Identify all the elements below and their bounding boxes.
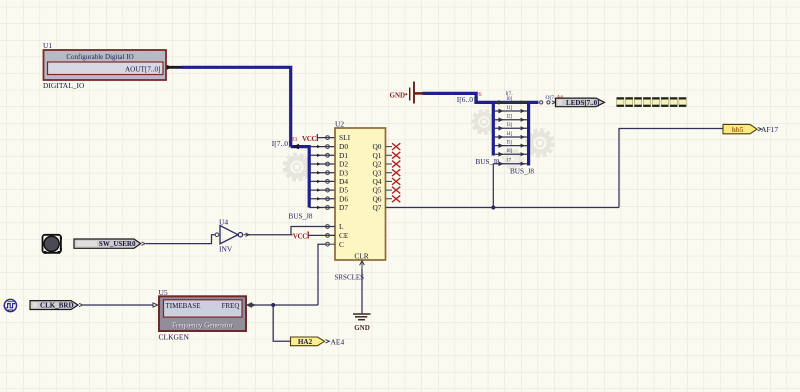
svg-text:U2: U2 [335, 120, 344, 129]
ground GND (U2 clear) [353, 314, 371, 320]
wire Q7 net to hb5 [619, 129, 723, 208]
svg-text:CLR: CLR [354, 251, 368, 260]
svg-text:D0: D0 [339, 142, 348, 151]
svg-text:D2: D2 [339, 160, 348, 169]
no-connect X Q3 [392, 169, 400, 176]
svg-text:TIMEBASE: TIMEBASE [166, 302, 201, 310]
svg-text:I2]: I2] [507, 115, 513, 120]
svg-text:AE4: AE4 [331, 337, 345, 346]
ripper arrows left column [317, 145, 321, 209]
LED block 2 [626, 97, 633, 106]
wire CLK_BRD to U5 [83, 304, 153, 306]
svg-text:BUS_J8: BUS_J8 [510, 168, 534, 176]
svg-text:D6: D6 [339, 194, 348, 203]
sheet entry AOUT[7..0] [125, 65, 183, 74]
wire junction up to C pin [318, 244, 325, 305]
svg-text:hb5: hb5 [732, 126, 744, 134]
svg-text:Q5: Q5 [372, 186, 381, 195]
junction FREQ [271, 303, 275, 307]
sheet symbol U1 [44, 50, 167, 80]
no-connect X Q4 [392, 178, 400, 185]
U2 Q pin stubs [386, 147, 392, 199]
svg-text:D7: D7 [339, 203, 348, 212]
ripper 2 labels [506, 92, 514, 154]
power port GND (top) [390, 82, 423, 104]
pin end circles U2 left [326, 136, 330, 210]
svg-text:I6]: I6] [507, 149, 513, 154]
LED block 4 [643, 97, 650, 106]
svg-text:VCC: VCC [302, 135, 316, 143]
ripper wire D0 [309, 146, 335, 148]
U5 output pin [246, 303, 255, 307]
svg-text:SRSCLES: SRSCLES [335, 274, 365, 282]
port HA2 [291, 337, 330, 346]
power port VCC (SLI) [302, 134, 317, 143]
bus GND to ripper 2 [423, 93, 539, 102]
ripper wire D1 [309, 154, 335, 156]
svg-text:D3: D3 [339, 168, 348, 177]
watermark gear 4 [505, 151, 522, 168]
port LEDS[7..0] [556, 98, 605, 107]
svg-text:I7: I7 [507, 159, 512, 164]
bus AOUT from U1 [182, 67, 291, 146]
svg-text:U5: U5 [159, 288, 168, 297]
inverter U4 [215, 226, 249, 244]
svg-text:CLK_BRD: CLK_BRD [40, 302, 73, 310]
svg-text:DIGITAL_IO: DIGITAL_IO [43, 81, 85, 90]
LED block 6 [661, 97, 668, 106]
svg-text:SLI: SLI [339, 133, 351, 142]
power port VCC (CE) [293, 231, 308, 240]
svg-text:I5]: I5] [507, 141, 513, 146]
LED block 7 [670, 97, 677, 106]
no-connect X Q0 [392, 143, 400, 150]
ripper wire D5 [309, 189, 335, 191]
svg-text:BUS_J8: BUS_J8 [476, 158, 500, 166]
svg-text:I[6..0]: I[6..0] [457, 95, 476, 104]
push button icon [43, 235, 63, 254]
svg-text:D5: D5 [339, 186, 348, 195]
svg-text:Q7: Q7 [372, 203, 381, 212]
ripper wire D7 [309, 207, 335, 209]
clock source icon [4, 299, 16, 311]
wire Q7 net horizontal [386, 207, 619, 209]
junction Q7 [491, 206, 495, 210]
ripper wire D4 [309, 180, 335, 182]
svg-text:Q1: Q1 [372, 151, 381, 160]
svg-text:Q3: Q3 [372, 168, 381, 177]
svg-text:GND: GND [354, 324, 370, 332]
svg-text:HA2: HA2 [298, 338, 313, 346]
wire I7 down to Q7 net [492, 164, 494, 208]
wire junction down to HA2 [273, 305, 290, 341]
svg-text:GND: GND [390, 91, 406, 99]
svg-text:CE: CE [339, 231, 349, 240]
LED block 8 [679, 97, 686, 106]
svg-text:AF17: AF17 [761, 125, 778, 134]
wire vertical to L [291, 227, 335, 235]
wire U4 out to VCC port [249, 234, 293, 236]
wire SW_USER0 to U4 [146, 235, 215, 244]
svg-text:FREQ: FREQ [222, 302, 240, 310]
svg-text:BUS_J8: BUS_J8 [289, 213, 313, 221]
svg-text:Q0: Q0 [372, 142, 381, 151]
watermark gear 2 [474, 112, 494, 132]
wire VCC to SLI [317, 137, 335, 139]
U2 left pin names [339, 133, 351, 249]
ripper wire D6 [309, 198, 335, 200]
svg-text:Q2: Q2 [372, 160, 381, 169]
bus entry arrow [293, 144, 300, 150]
U5 input pin [153, 303, 158, 307]
svg-text:INV: INV [219, 244, 233, 253]
svg-text:LEDS[7..0]: LEDS[7..0] [566, 99, 599, 107]
wire FREQ to junction [255, 304, 319, 306]
svg-text:J6: J6 [476, 91, 483, 98]
no-connect X Q5 [392, 187, 400, 194]
ripper 2 rows [493, 102, 527, 163]
watermark gear 3 [529, 132, 552, 155]
wire VCC to CE [308, 234, 335, 236]
watermark gear 1 [286, 156, 308, 178]
svg-text:D1: D1 [339, 151, 348, 160]
svg-text:VCC: VCC [293, 233, 307, 241]
LED block 1 [617, 97, 624, 106]
svg-text:SW_USER0: SW_USER0 [99, 240, 136, 248]
LED block 3 [634, 97, 641, 106]
bus vertical right (ripper 2) [527, 102, 530, 165]
wire SRSCLES [361, 269, 363, 314]
svg-text:J3: J3 [292, 136, 298, 143]
no-connect X Q1 [392, 152, 400, 159]
svg-text:C: C [339, 240, 344, 249]
ripper wire D3 [309, 172, 335, 174]
shift register U2 [335, 128, 386, 260]
bus to port LEDS glyphs [540, 101, 556, 104]
U2 pins L CE C [325, 225, 335, 247]
svg-text:Q6: Q6 [372, 194, 381, 203]
svg-text:Frequency Generator: Frequency Generator [172, 321, 233, 329]
svg-text:CLKGEN: CLKGEN [159, 333, 190, 342]
sheet symbol U5 [159, 296, 246, 331]
svg-text:D4: D4 [339, 177, 348, 186]
svg-text:I[7..0]: I[7..0] [272, 139, 291, 148]
svg-text:I0]: I0] [507, 97, 513, 102]
no-connect X Q2 [392, 161, 400, 168]
svg-text:I3]: I3] [507, 123, 513, 128]
svg-text:O[7.: O[7. [546, 95, 557, 101]
U2 right pin names [372, 142, 381, 212]
ripper wire D2 [309, 163, 335, 165]
port CLK_BRD [30, 301, 83, 310]
port hb5 [723, 124, 762, 133]
svg-text:L: L [339, 222, 344, 231]
svg-text:Q4: Q4 [372, 177, 381, 186]
bus vertical left (ripper 2) [492, 102, 495, 155]
svg-text:U1: U1 [43, 41, 52, 50]
bus corner into ripper BUS_J8 [291, 147, 310, 208]
no-connect X Q6 [392, 195, 400, 202]
svg-text:U4: U4 [219, 217, 228, 226]
svg-text:I4]: I4] [507, 132, 513, 137]
U2 CLR pin stub [360, 260, 365, 269]
ripper 2 arrows [499, 101, 502, 165]
svg-text:AOUT[7..0]: AOUT[7..0] [125, 66, 161, 74]
svg-text:I1]: I1] [507, 106, 513, 111]
port SW_USER0 [74, 239, 145, 248]
LED block 5 [652, 97, 659, 106]
svg-text:Configurable Digital IO: Configurable Digital IO [66, 53, 133, 61]
